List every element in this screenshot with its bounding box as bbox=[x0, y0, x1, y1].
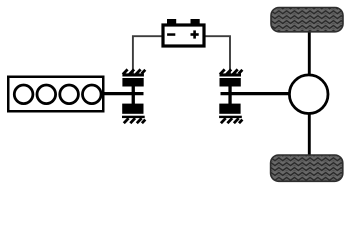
MG1 ground hatching bbox=[124, 118, 146, 123]
shaft engine to MG1 bbox=[104, 92, 144, 95]
MG1 mount bar bbox=[122, 73, 143, 76]
engine cylinder 4 bbox=[83, 85, 102, 104]
axle lower bbox=[308, 108, 311, 156]
MG1 ground line bbox=[122, 116, 145, 118]
motor-generator MG1 bbox=[122, 69, 145, 123]
engine cylinder 1 bbox=[14, 85, 33, 104]
MG2 stator top block bbox=[220, 78, 241, 87]
motor-generator MG2 bbox=[219, 69, 242, 123]
battery B1 bbox=[163, 19, 204, 46]
MG1 rotor link bbox=[132, 78, 135, 105]
MG2 ground hatching bbox=[221, 118, 243, 123]
axle upper bbox=[308, 31, 311, 80]
MG2 stator bottom block bbox=[219, 104, 240, 114]
MG2 stator mount hatching top bbox=[220, 69, 243, 74]
engine (ICE) bbox=[8, 77, 103, 112]
wire battery positive to MG2 bbox=[206, 36, 231, 74]
MG1 stator mount hatching top bbox=[123, 69, 146, 74]
differential bbox=[289, 75, 328, 114]
MG1 stator bottom block bbox=[122, 104, 143, 114]
battery minus sign bbox=[167, 33, 175, 36]
MG1 stator top block bbox=[122, 78, 143, 87]
MG2 mount bar bbox=[220, 73, 242, 76]
wheel rear bbox=[271, 155, 343, 181]
engine cylinder 2 bbox=[37, 85, 56, 104]
battery plus sign bbox=[191, 30, 199, 38]
shaft MG2 to differential bbox=[221, 92, 293, 95]
MG2 ground line bbox=[219, 116, 242, 118]
MG2 rotor link bbox=[228, 78, 231, 105]
engine cylinder 3 bbox=[60, 85, 79, 104]
wheel front bbox=[271, 8, 343, 32]
wire battery negative to MG1 bbox=[133, 36, 162, 74]
